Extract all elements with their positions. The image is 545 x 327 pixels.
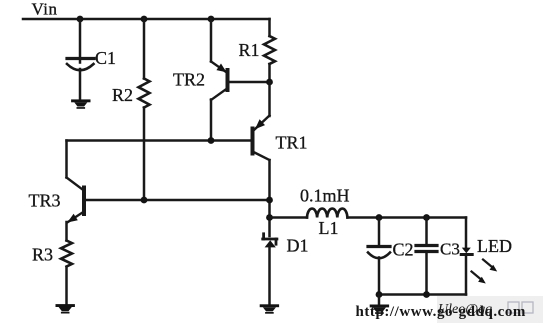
ground below C2 rail (370, 305, 389, 314)
node junction C2 top (376, 214, 383, 221)
wire rail corner to R1 (268, 19, 271, 36)
node junction R2 bottom on line B (141, 197, 148, 204)
node junction R1/TR2-base/TR1-emitter (266, 79, 273, 86)
resistor R1 (239, 36, 276, 64)
capacitor C1 (67, 48, 116, 70)
node junction C1/rail (77, 16, 84, 23)
wire TR2 emitter vertical (210, 19, 213, 62)
capacitor C2 (368, 240, 414, 260)
transistor TR2 (PNP) (173, 62, 228, 101)
wire TR1 collector vertical down to D1 (268, 160, 271, 236)
diode D1 (zener) (263, 234, 309, 256)
svg-text:C2: C2 (393, 240, 414, 260)
wire TR1 emitter vertical (268, 82, 271, 116)
node junction TR2-emitter/rail (208, 16, 215, 23)
svg-text:C3: C3 (440, 240, 460, 259)
inductor L1 (300, 185, 350, 238)
ground below D1 (260, 304, 279, 313)
node junction C2 bottom (376, 291, 383, 298)
wire LED bottom lead (465, 255, 468, 295)
svg-text:TR1: TR1 (276, 133, 308, 153)
svg-text:TR2: TR2 (173, 70, 205, 90)
svg-text:LED: LED (477, 236, 512, 256)
svg-text:R1: R1 (239, 40, 260, 60)
resistor R3 (32, 241, 72, 267)
wire top rail Vin (23, 18, 270, 21)
svg-text:L1: L1 (319, 218, 339, 238)
wire TR3 collector vertical (65, 141, 68, 178)
wire R2 bottom lead (143, 108, 146, 201)
wire C3 bottom lead (425, 252, 428, 295)
svg-text:0.1mH: 0.1mH (300, 185, 350, 205)
wire C1 bottom lead (79, 69, 82, 100)
wire output right branch down (465, 218, 468, 248)
wire bottom output rail (379, 293, 466, 296)
wire C1 top lead (79, 19, 82, 63)
transistor TR3 (NPN) (29, 178, 85, 223)
watermark gray box (437, 296, 543, 323)
svg-text:D1: D1 (287, 236, 309, 256)
wire L1 right lead to output corner (348, 216, 467, 219)
resistor R2 (112, 79, 150, 108)
wire R3 bottom lead (65, 267, 68, 305)
wire base line A TR3-collector to TR1-base (67, 139, 252, 142)
node junction R2/rail (141, 16, 148, 23)
node junction TR2-collector on line A (208, 137, 215, 144)
wire base line B TR3-base to TR1-collector (86, 199, 270, 202)
svg-text:http://www.go-gddq.com: http://www.go-gddq.com (356, 304, 526, 320)
wire R2 top lead (143, 19, 146, 79)
LED (461, 236, 512, 284)
wire C2 top lead (378, 218, 381, 247)
wire R1 bottom lead (268, 64, 271, 82)
node junction L1 tap (266, 214, 273, 221)
wire TR3 emitter vertical (65, 222, 68, 241)
wire TR2 collector vertical (210, 100, 213, 141)
wire TR2 base to R1 node (230, 81, 270, 84)
svg-text:C1: C1 (95, 48, 116, 68)
node junction C3 bottom (423, 291, 430, 298)
node junction line B / TR1 collector (266, 197, 273, 204)
svg-text:Vin: Vin (32, 0, 58, 19)
transistor TR1 (PNP) (253, 116, 308, 161)
node junction C3 top (423, 214, 430, 221)
wire C2 bottom lead (378, 258, 381, 295)
wire ground stub (378, 295, 381, 306)
svg-text:R3: R3 (32, 245, 53, 265)
wire C3 top lead (425, 218, 428, 246)
svg-text:R2: R2 (112, 85, 133, 105)
ground below R3 (55, 304, 74, 313)
svg-text:TR3: TR3 (29, 191, 61, 211)
wire D1 bottom lead (268, 247, 271, 305)
wire L1 left lead (270, 216, 308, 219)
capacitor C3 (416, 240, 460, 259)
ground below C1 (71, 99, 90, 108)
